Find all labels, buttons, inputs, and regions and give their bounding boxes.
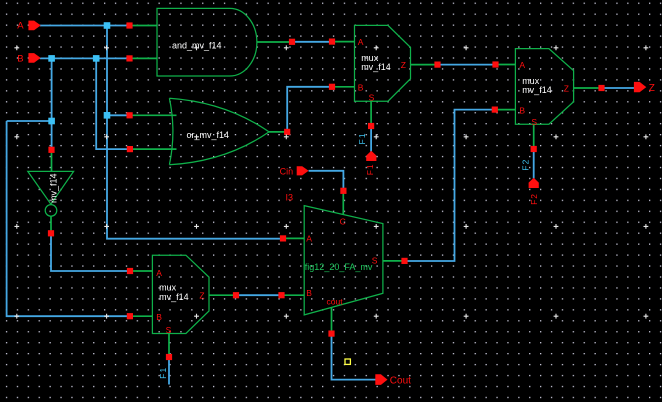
inverter output stub bbox=[50, 216, 52, 233]
wire inverter out to mux I2 pin A bbox=[51, 233, 130, 271]
svg-text:A: A bbox=[156, 268, 162, 278]
svg-text:mv_f14: mv_f14 bbox=[49, 173, 59, 203]
pin connection or in2 bbox=[127, 146, 133, 152]
pin connection FA A bbox=[280, 235, 286, 241]
svg-text:F1: F1 bbox=[357, 132, 367, 144]
pin connection inverter in bbox=[48, 147, 54, 153]
input pin B bbox=[28, 53, 40, 63]
pin connection mux I0 Z bbox=[598, 85, 604, 91]
wire net A: pin A to and_mv_f14 in1, branch down to or in1 and FA A bbox=[40, 26, 283, 239]
pin connection and out bbox=[289, 39, 295, 45]
pin connection and in1 bbox=[126, 22, 132, 28]
svg-text:S: S bbox=[531, 117, 537, 127]
svg-text:C: C bbox=[340, 217, 346, 227]
pin connection mux I1 B bbox=[329, 84, 335, 90]
inverter mv_f14 bbox=[28, 171, 74, 204]
and gate output stub bbox=[257, 41, 292, 43]
wire mux I2 Z to FA B bbox=[236, 294, 282, 296]
svg-text:B: B bbox=[306, 288, 312, 298]
svg-text:B: B bbox=[17, 53, 23, 64]
pin connection mux I0 S bbox=[531, 146, 537, 152]
pin connection mux I2 A bbox=[127, 268, 133, 274]
svg-text:S: S bbox=[372, 255, 378, 265]
mux I2 body bbox=[152, 255, 209, 333]
pin connection mux I1 A bbox=[329, 39, 335, 45]
and gate and_mv_f14 bbox=[157, 8, 257, 76]
full adder I3 fig12_20_FA_mv bbox=[304, 206, 383, 315]
svg-text:S: S bbox=[369, 93, 375, 103]
inverter input stub bbox=[51, 150, 53, 172]
svg-text:Cout: Cout bbox=[390, 375, 411, 386]
pin connection or out bbox=[284, 129, 290, 135]
svg-text:B: B bbox=[156, 312, 162, 322]
pin connection mux I0 B bbox=[492, 107, 498, 113]
svg-text:Z: Z bbox=[649, 83, 655, 94]
or gate input stubs bbox=[130, 115, 177, 149]
pin connection and in2 bbox=[126, 55, 132, 61]
pin connection mux I1 S bbox=[368, 123, 374, 129]
pin connection FA S bbox=[401, 258, 407, 264]
svg-text:I3: I3 bbox=[286, 192, 294, 202]
pin connection mux I2 Z bbox=[233, 292, 239, 298]
svg-text:A: A bbox=[358, 37, 364, 47]
input pin F1 (under mux I1) bbox=[366, 151, 376, 161]
svg-text:S: S bbox=[166, 325, 172, 335]
svg-text:Z: Z bbox=[199, 291, 204, 301]
or gate output stub bbox=[269, 131, 287, 133]
or gate or_mv_f14 bbox=[169, 98, 269, 165]
junction net A to or in1 bbox=[104, 112, 111, 119]
svg-text:Z: Z bbox=[564, 83, 569, 93]
svg-text:mv_f14: mv_f14 bbox=[361, 62, 391, 72]
marker yellow square bbox=[345, 359, 350, 364]
svg-text:fig12_20_FA_mv: fig12_20_FA_mv bbox=[305, 262, 373, 272]
svg-text:A: A bbox=[519, 60, 525, 70]
input pin F2 (under mux I0) bbox=[529, 178, 539, 188]
pin connection mux I2 S bbox=[166, 354, 172, 360]
junction net B to or in2 bbox=[93, 55, 100, 62]
pin connection FA C bbox=[340, 188, 346, 194]
pin connection inverter out bbox=[48, 230, 54, 236]
wire mux I0 S to pin F2 bbox=[533, 149, 535, 179]
wire FA S to mux I0 B bbox=[405, 110, 496, 261]
FA pin stubs bbox=[282, 191, 405, 334]
mux I0 pin stubs bbox=[496, 65, 602, 150]
svg-text:B: B bbox=[519, 106, 525, 116]
input pin A bbox=[28, 21, 40, 31]
wire or_mv_f14 out to mux I1 pin B bbox=[287, 87, 332, 132]
input pin Cin bbox=[297, 166, 309, 175]
svg-text:cout: cout bbox=[327, 297, 344, 307]
pin connection or in1 bbox=[127, 112, 133, 118]
pin connection mux I2 B bbox=[127, 313, 133, 319]
svg-text:F1: F1 bbox=[365, 163, 375, 175]
wire mux I0 Z to output pin Z bbox=[602, 87, 635, 89]
svg-text:or_mv_f14: or_mv_f14 bbox=[187, 130, 230, 140]
svg-text:A: A bbox=[306, 233, 312, 243]
svg-text:Cin: Cin bbox=[280, 166, 294, 176]
junction net A on A wire bbox=[104, 22, 111, 29]
svg-text:F2: F2 bbox=[529, 193, 539, 205]
svg-text:B: B bbox=[358, 82, 364, 92]
svg-text:F2: F2 bbox=[520, 158, 530, 170]
svg-text:mv_f14: mv_f14 bbox=[159, 292, 189, 302]
svg-text:Z: Z bbox=[401, 60, 406, 70]
wire FA cout to output pin Cout bbox=[332, 334, 377, 380]
mux I1 pin stubs bbox=[332, 42, 438, 126]
inverter bubble bbox=[45, 205, 57, 217]
junction net B to inverter bbox=[48, 55, 55, 62]
pin connection mux I0 A bbox=[492, 61, 498, 67]
mux I0 body bbox=[515, 49, 573, 125]
wire mux I1 Z to mux I0 A bbox=[438, 64, 496, 66]
output pin Cout bbox=[375, 374, 387, 385]
wire mux I1 S to pin F1 bbox=[370, 126, 372, 152]
junction net B rail bbox=[48, 118, 55, 125]
pin connection FA B bbox=[278, 292, 284, 298]
output pin Z bbox=[634, 82, 646, 92]
mux I1 body bbox=[355, 25, 411, 101]
wire net B: pin B to and in2, branches to inverter, or in2, mux3 B bbox=[7, 58, 130, 316]
pin connection FA cout bbox=[328, 331, 334, 337]
pin connection mux I1 Z bbox=[434, 62, 440, 68]
svg-text:A: A bbox=[17, 20, 24, 31]
wire and_mv_f14 out to mux I1 pin A bbox=[292, 41, 332, 43]
wire pin Cin to FA C bbox=[309, 171, 344, 191]
svg-text:F1: F1 bbox=[158, 367, 168, 379]
and gate input stubs bbox=[130, 26, 158, 59]
svg-text:mv_f14: mv_f14 bbox=[522, 85, 552, 95]
mux I2 pin stubs bbox=[130, 271, 236, 357]
wire net F1 from mux I2 S bbox=[168, 357, 170, 385]
